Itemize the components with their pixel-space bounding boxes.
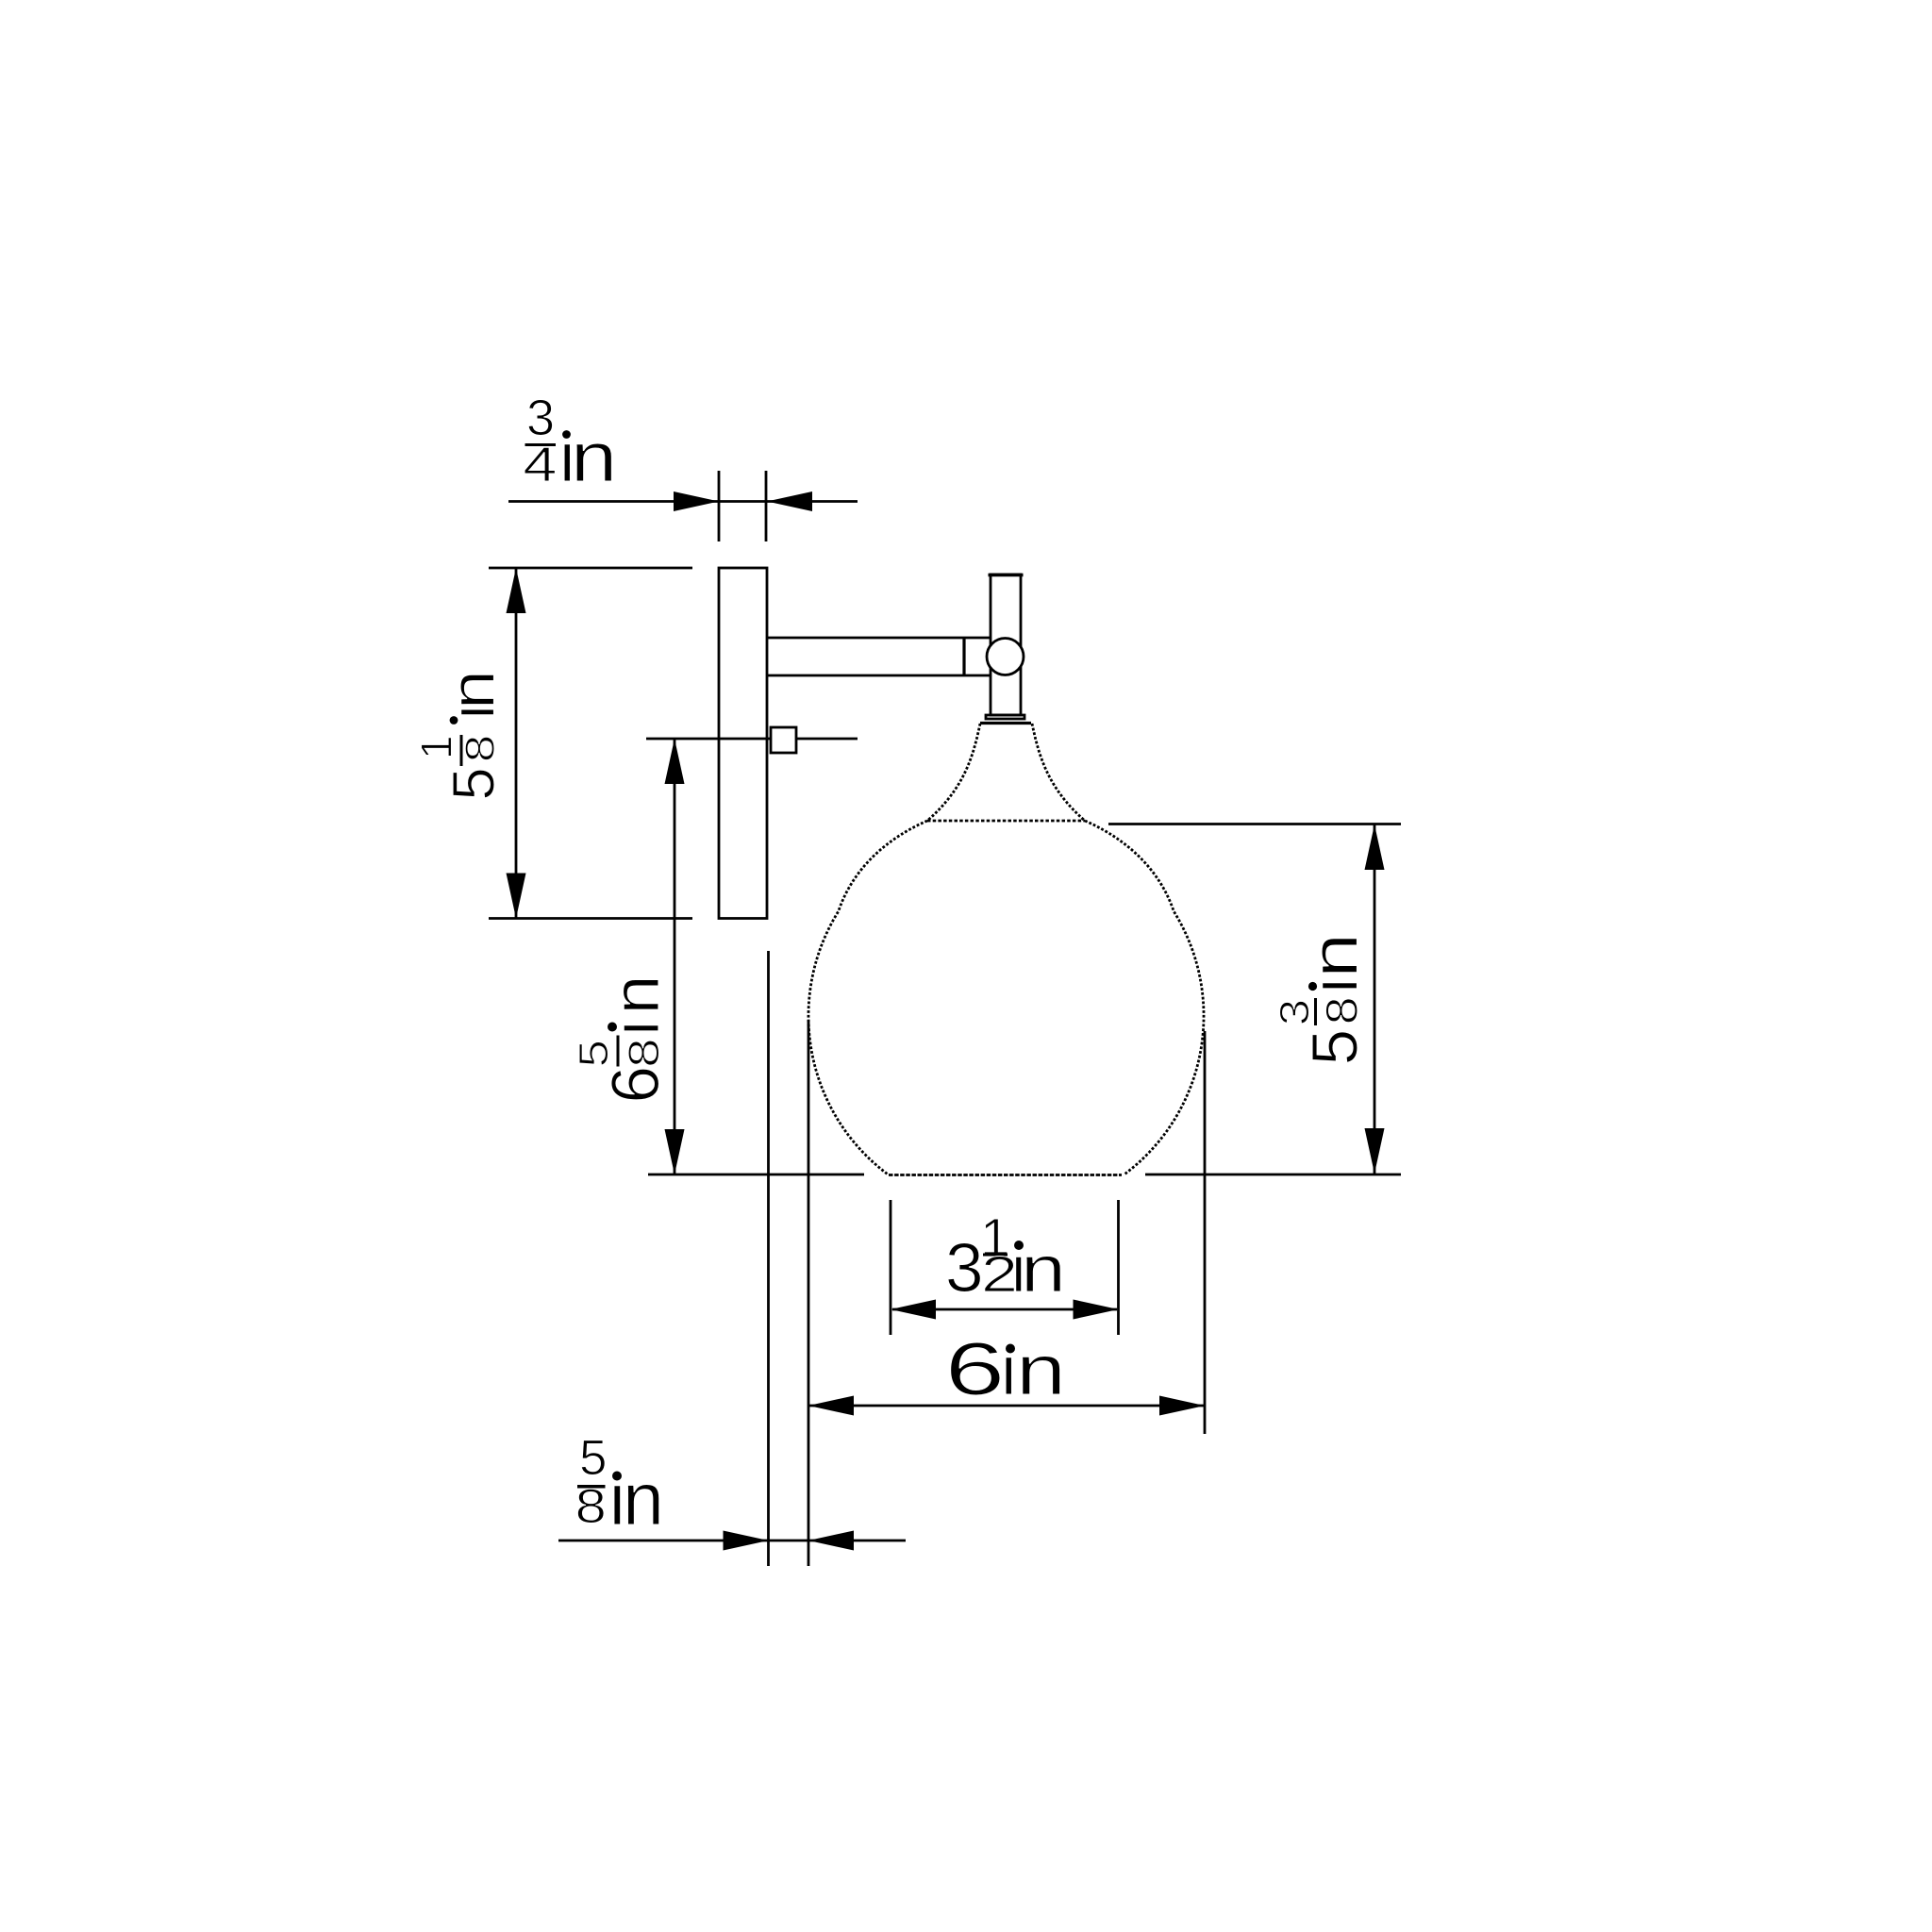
i-dot of 3/4in bbox=[562, 430, 571, 439]
svg-text:8: 8 bbox=[458, 735, 504, 762]
label 6in bbox=[945, 1327, 1067, 1410]
extension line shade right bbox=[1204, 1031, 1207, 1434]
arrow 5-1/8 up bbox=[507, 568, 526, 613]
svg-text:n: n bbox=[571, 418, 617, 496]
svg-text:4: 4 bbox=[523, 438, 557, 492]
stem rod bbox=[991, 575, 1021, 715]
svg-text:n: n bbox=[623, 1457, 664, 1541]
dim 5-3/8: dimension line bbox=[1374, 824, 1376, 1174]
socket collar bbox=[986, 715, 1024, 719]
shade neck right curve bbox=[1032, 724, 1085, 821]
svg-text:6: 6 bbox=[945, 1327, 1006, 1410]
shade neck top line bbox=[980, 722, 1031, 724]
baseline right segment bbox=[1145, 1174, 1401, 1176]
arrow 5/8 right (tip at shade left) bbox=[808, 1531, 854, 1551]
arrow 5-1/8 down bbox=[507, 874, 526, 919]
arrow 6-5/8 down bbox=[665, 1129, 685, 1174]
arm bottom edge bbox=[767, 675, 991, 677]
label 3/4in bbox=[523, 390, 617, 496]
svg-text:8: 8 bbox=[620, 1038, 668, 1067]
svg-text:n: n bbox=[438, 670, 508, 709]
svg-text:3: 3 bbox=[945, 1230, 984, 1307]
dim 6in: dimension line bbox=[808, 1405, 1205, 1407]
dim 5-1/8: bottom extension line bbox=[489, 917, 692, 920]
arrow 3/4 right bbox=[767, 491, 812, 511]
dim 5/8: dimension line bbox=[558, 1540, 906, 1542]
dim 3-1/2: dimension line bbox=[892, 1308, 1117, 1311]
shade body right profile bbox=[1085, 821, 1204, 1175]
svg-text:n: n bbox=[1298, 933, 1372, 978]
svg-text:n: n bbox=[1016, 1330, 1066, 1409]
arrow 5-3/8 down bbox=[1365, 1128, 1385, 1174]
dim 3-1/2: right tick bbox=[1117, 1200, 1120, 1335]
shade shoulder line bbox=[927, 820, 1085, 823]
rod top cap bbox=[989, 574, 1024, 577]
svg-text:n: n bbox=[1021, 1232, 1066, 1306]
dim 5-1/8: dimension line bbox=[515, 568, 518, 919]
label 6-5/8in (rotated) bbox=[571, 975, 674, 1104]
dim 3/4: left extension line bbox=[718, 471, 721, 541]
arrow 3-1/2 right bbox=[1074, 1300, 1119, 1320]
svg-text:5: 5 bbox=[441, 767, 508, 800]
arrow 5-3/8 up bbox=[1365, 824, 1385, 870]
arm joint divider bbox=[962, 638, 965, 675]
label 5-3/8in (rotated) bbox=[1272, 933, 1372, 1065]
svg-text:1: 1 bbox=[412, 735, 461, 759]
dim 3/4: dimension line bbox=[508, 500, 858, 503]
arrow 6-5/8 up bbox=[665, 739, 685, 784]
svg-text:3: 3 bbox=[1272, 999, 1318, 1025]
svg-text:n: n bbox=[599, 975, 673, 1015]
dim 5-1/8: top extension line bbox=[489, 567, 692, 570]
arm top edge bbox=[767, 637, 991, 640]
i-dot of 6in bbox=[1006, 1344, 1015, 1354]
svg-text:8: 8 bbox=[575, 1479, 607, 1533]
label 5-1/8in (rotated) bbox=[412, 670, 508, 800]
dim 3/4: right extension line bbox=[765, 471, 768, 541]
arrow 6in right bbox=[1159, 1396, 1205, 1416]
label 3-1/2in bbox=[945, 1207, 1066, 1307]
shade body left profile bbox=[808, 821, 927, 1175]
arrow 3-1/2 left bbox=[891, 1300, 936, 1320]
mounting screw centerline bbox=[646, 738, 858, 741]
svg-text:5: 5 bbox=[579, 1430, 607, 1486]
shade neck left curve bbox=[927, 724, 980, 821]
svg-text:5: 5 bbox=[1299, 1029, 1372, 1065]
shade bottom flat bbox=[889, 1174, 1122, 1176]
dim 6-5/8: dimension line bbox=[674, 739, 676, 1174]
pivot knuckle bbox=[987, 639, 1024, 675]
dim 3-1/2: left tick bbox=[890, 1200, 892, 1335]
svg-text:5: 5 bbox=[571, 1040, 617, 1067]
i-dot of 5/8in bbox=[612, 1472, 622, 1481]
mounting screw bbox=[771, 727, 796, 753]
svg-text:6: 6 bbox=[599, 1066, 674, 1104]
wall plate bbox=[719, 568, 767, 919]
label 5/8in bbox=[575, 1430, 664, 1541]
i-dot of 3-1/2in bbox=[1014, 1241, 1024, 1250]
baseline left segment bbox=[648, 1174, 864, 1176]
arrow 5/8 left (tip at wall face) bbox=[724, 1531, 769, 1551]
dim 5-3/8: top extension line bbox=[1108, 823, 1401, 825]
svg-text:8: 8 bbox=[1317, 996, 1367, 1024]
arrow 6in left bbox=[808, 1396, 854, 1416]
arrow 3/4 left bbox=[674, 491, 719, 511]
extension line wall face bbox=[767, 951, 770, 1566]
extension line shade left bbox=[808, 1020, 810, 1566]
